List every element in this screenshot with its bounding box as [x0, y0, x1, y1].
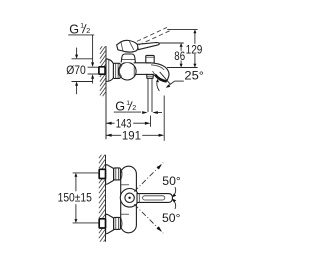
dimension D70 (escutcheon diameter)	[66, 48, 93, 95]
union nut (side view)	[113, 63, 120, 78]
bottom union nut (front view)	[114, 217, 121, 229]
svg-text:150±15: 150±15	[58, 191, 93, 205]
svg-text:Ø70: Ø70	[66, 63, 86, 77]
swing arc arrow (upper)	[172, 187, 176, 197]
top pipe square (front view)	[99, 169, 105, 178]
svg-text:191: 191	[122, 128, 141, 142]
svg-text:50°: 50°	[162, 211, 181, 225]
inlet pipe stub	[88, 67, 99, 74]
cartridge dome	[121, 54, 135, 62]
dimension 129 (lever raised height)	[167, 29, 203, 67]
svg-text:1: 1	[80, 23, 84, 30]
swing range dash-dot line (down)	[134, 204, 163, 233]
lever raised position (dashed)	[137, 27, 170, 45]
lever handle grip (side view)	[117, 40, 139, 52]
dimension 143	[106, 116, 151, 131]
bottom escutcheon (front view)	[106, 214, 114, 234]
top escutcheon (front view)	[106, 165, 114, 185]
dimension 86 (lever height at rest)	[159, 43, 185, 68]
pipe end cap (square)	[99, 67, 105, 74]
faucet body cylinder (side view)	[134, 63, 151, 75]
svg-text:1: 1	[126, 100, 130, 107]
svg-text:G: G	[115, 100, 125, 114]
svg-text:86: 86	[174, 49, 185, 63]
svg-text:G: G	[69, 22, 79, 36]
label G 1/2 (top-left, inlet pipe thread)	[68, 22, 94, 83]
wall hatching (front view)	[99, 155, 106, 242]
lever arm (side view, at rest)	[137, 43, 159, 50]
label G 1/2 (spout outlet thread)	[114, 100, 162, 114]
valve body circle (side view)	[119, 62, 137, 80]
bottom pipe square (front view)	[99, 219, 105, 228]
lever (front view)	[137, 194, 173, 203]
wall hatching (side view)	[100, 46, 106, 139]
svg-text:2: 2	[86, 26, 90, 35]
dimension 150 +/- 15	[58, 173, 99, 223]
diverter knob	[146, 55, 154, 63]
dimension 191	[106, 96, 164, 143]
spout mouth rim	[155, 75, 167, 82]
svg-text:129: 129	[186, 42, 203, 56]
top union nut (front view)	[114, 168, 121, 180]
svg-text:2: 2	[132, 103, 136, 112]
svg-text:25°: 25°	[184, 69, 204, 83]
swing arc arrow (lower)	[172, 199, 176, 209]
angle 25 deg annotation	[156, 69, 204, 91]
faucet body (front view)	[121, 166, 137, 233]
escutcheon circle (front view)	[120, 189, 139, 208]
swing range dash-dot line (up)	[134, 163, 163, 192]
shower hose outlet fitting	[147, 74, 154, 112]
svg-text:50°: 50°	[162, 174, 181, 188]
spout (curved, side view)	[150, 63, 169, 82]
escutcheon cone (side view)	[106, 59, 114, 82]
